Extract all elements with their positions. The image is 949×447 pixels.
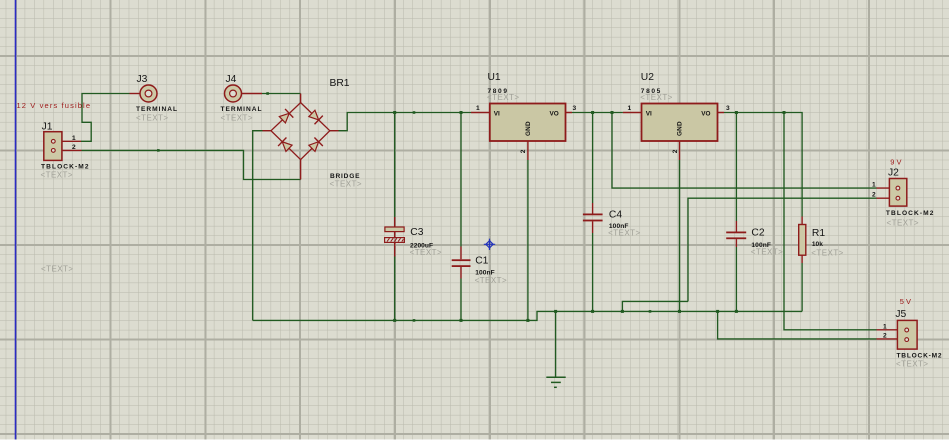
svg-text:<TEXT>: <TEXT> — [330, 180, 363, 189]
svg-text:TBLOCK-M2: TBLOCK-M2 — [897, 353, 942, 360]
ground — [546, 377, 565, 387]
svg-text:C2: C2 — [751, 228, 764, 239]
svg-text:C3: C3 — [410, 227, 423, 238]
svg-text:<TEXT>: <TEXT> — [811, 249, 844, 258]
svg-text:<TEXT>: <TEXT> — [887, 218, 920, 227]
wire J5 pin2 branch — [718, 311, 877, 339]
svg-text:VO: VO — [550, 111, 559, 118]
diode D4 bottom-right — [308, 137, 323, 152]
wire C1 branch down — [460, 113, 462, 321]
wire C3 branch down — [394, 113, 396, 321]
svg-text:J5: J5 — [895, 309, 906, 320]
diode D3 bottom-left — [278, 137, 293, 152]
svg-text:J4: J4 — [226, 74, 237, 85]
wire U2 GND down — [679, 160, 681, 311]
wire U2 VO to R1 top — [724, 113, 802, 217]
regulator U2 7805 — [623, 72, 730, 160]
diode D1 top-left — [278, 109, 293, 124]
svg-text:<TEXT>: <TEXT> — [896, 360, 929, 369]
wire bridge left corner to ground bus — [253, 131, 263, 321]
wire C4 branch down — [592, 113, 594, 312]
svg-text:TERMINAL: TERMINAL — [136, 106, 177, 113]
svg-text:VO: VO — [701, 111, 710, 118]
regulator U1 7809 — [471, 72, 577, 160]
svg-text:TERMINAL: TERMINAL — [221, 106, 262, 113]
svg-text:5 V: 5 V — [900, 297, 911, 306]
sheet border (blue) — [15, 0, 17, 440]
svg-text:10k: 10k — [812, 241, 823, 248]
terminal J4 — [221, 74, 263, 123]
svg-text:J3: J3 — [137, 74, 148, 85]
wire 5V net down to J5 pin1 — [784, 113, 877, 330]
capacitor C3 2200uF — [385, 217, 443, 257]
wire J3 to J1 pin1 — [81, 94, 130, 142]
svg-text:2: 2 — [520, 149, 527, 153]
capacitor C2 100nF — [726, 221, 783, 257]
capacitor C4 100nF — [583, 203, 641, 238]
svg-text:J1: J1 — [42, 122, 53, 133]
capacitor C1 100nF — [452, 247, 507, 286]
svg-text:C1: C1 — [475, 256, 488, 267]
terminal J3 — [130, 74, 178, 123]
svg-text:<TEXT>: <TEXT> — [136, 114, 169, 123]
origin marker — [484, 239, 495, 250]
svg-text:2: 2 — [672, 149, 679, 153]
bridge rectifier BR1 — [263, 78, 363, 189]
wire 9V net down and right to J2 pin1 — [612, 113, 877, 189]
svg-text:<TEXT>: <TEXT> — [41, 170, 74, 179]
svg-text:1: 1 — [476, 105, 480, 112]
svg-text:<TEXT>: <TEXT> — [640, 93, 673, 102]
wire J1 pin2 to bridge bottom — [82, 150, 301, 179]
wire bridge right corner to U1 VI — [339, 113, 472, 131]
wire U1 GND down — [527, 160, 529, 320]
svg-text:TBLOCK-M2: TBLOCK-M2 — [886, 210, 934, 217]
wire ground bus — [253, 311, 802, 320]
resistor R1 10k — [799, 217, 844, 264]
svg-text:<TEXT>: <TEXT> — [608, 229, 641, 238]
svg-text:VI: VI — [646, 111, 652, 118]
svg-text:U2: U2 — [641, 72, 654, 83]
bottom white margin — [0, 440, 949, 447]
svg-text:R1: R1 — [812, 228, 825, 239]
svg-text:C4: C4 — [609, 210, 622, 221]
wire J4 to bridge top — [262, 93, 301, 95]
svg-text:U1: U1 — [488, 72, 501, 83]
wire U1 VO to U2 VI — [572, 112, 623, 114]
svg-text:3: 3 — [726, 105, 730, 112]
svg-text:1: 1 — [72, 135, 76, 142]
wire bus jog to J2 pin2 — [622, 301, 688, 311]
svg-text:VI: VI — [494, 111, 500, 118]
wire C2 branch down — [735, 113, 737, 312]
svg-text:12 V vers fusible: 12 V vers fusible — [17, 101, 91, 110]
svg-text:J2: J2 — [888, 167, 899, 178]
wire J2 pin2 to ground bus — [688, 198, 877, 301]
svg-text:1: 1 — [883, 324, 887, 331]
diode D2 top-right — [308, 109, 323, 124]
svg-text:3: 3 — [573, 105, 577, 112]
svg-text:<TEXT>: <TEXT> — [751, 248, 784, 257]
connector J1 — [41, 122, 89, 180]
connector J5 — [877, 297, 942, 369]
svg-text:<TEXT>: <TEXT> — [487, 93, 520, 102]
svg-text:GND: GND — [677, 121, 684, 136]
svg-text:GND: GND — [525, 121, 532, 136]
svg-text:2: 2 — [72, 144, 76, 151]
svg-text:<TEXT>: <TEXT> — [41, 265, 74, 274]
svg-text:9 V: 9 V — [890, 157, 901, 166]
svg-text:1: 1 — [628, 105, 632, 112]
svg-text:<TEXT>: <TEXT> — [475, 276, 508, 285]
svg-text:2: 2 — [872, 191, 876, 198]
svg-text:BR1: BR1 — [330, 78, 350, 89]
wire ground tap — [555, 311, 557, 377]
wire R1 bottom to bus — [801, 263, 803, 311]
svg-text:2: 2 — [883, 333, 887, 340]
svg-text:<TEXT>: <TEXT> — [410, 248, 443, 257]
connector J2 — [872, 157, 934, 227]
svg-text:<TEXT>: <TEXT> — [221, 114, 254, 123]
svg-text:1: 1 — [872, 181, 876, 188]
